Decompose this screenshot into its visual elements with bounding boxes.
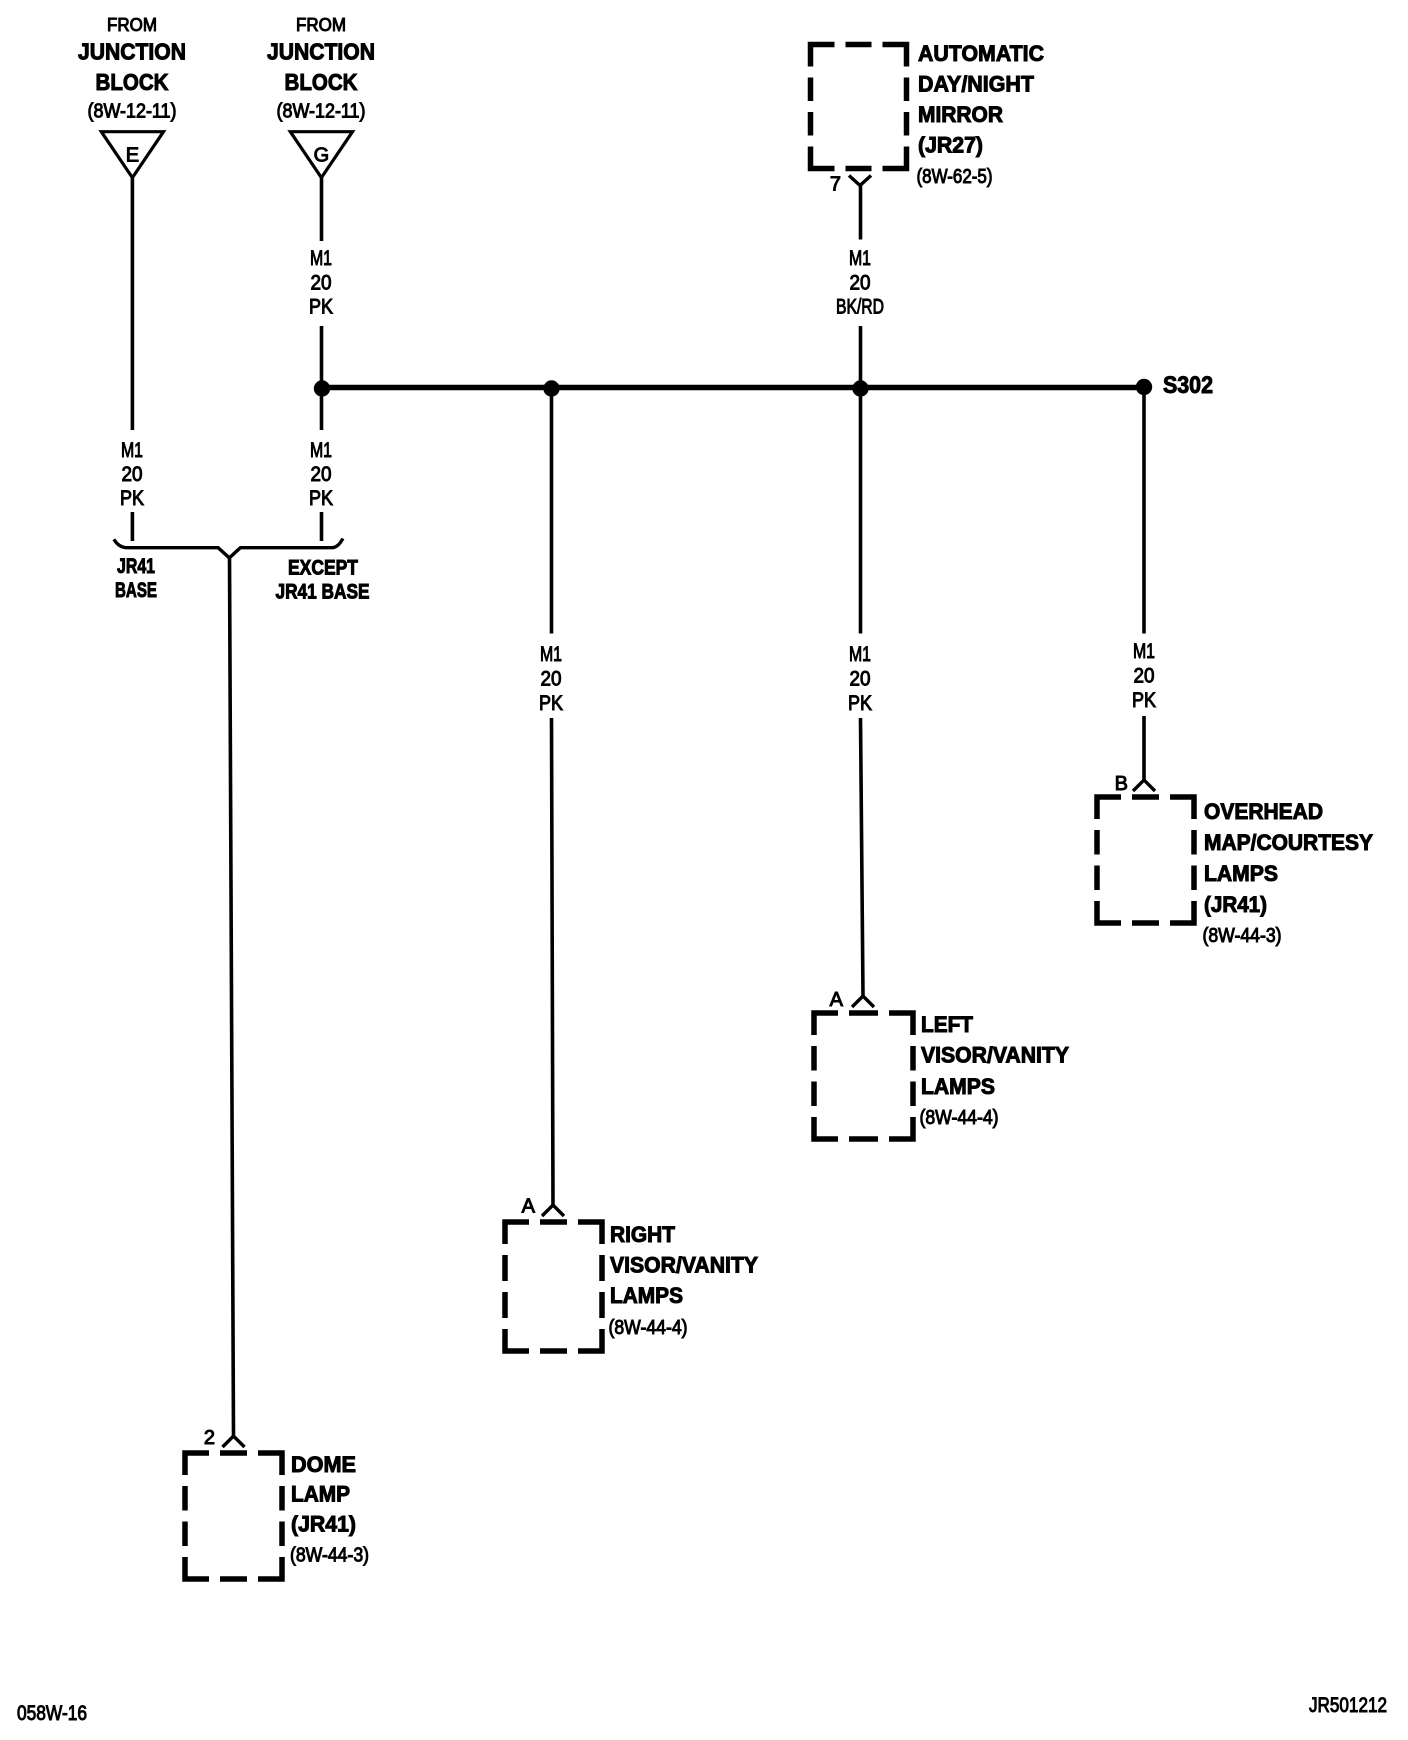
wire S302 to overhead lamps upper bbox=[1142, 395, 1146, 634]
connector triangle E from junction block bbox=[101, 132, 163, 178]
wire splice to left visor upper bbox=[859, 388, 863, 634]
svg-text:VISOR/VANITY: VISOR/VANITY bbox=[921, 1043, 1069, 1068]
svg-text:2: 2 bbox=[204, 1427, 215, 1449]
svg-text:EXCEPT: EXCEPT bbox=[288, 557, 358, 580]
svg-text:20: 20 bbox=[850, 272, 871, 295]
svg-text:(8W-12-11): (8W-12-11) bbox=[277, 101, 366, 123]
svg-text:(8W-44-3): (8W-44-3) bbox=[290, 1545, 369, 1567]
svg-text:E: E bbox=[126, 145, 139, 167]
svg-text:20: 20 bbox=[850, 668, 871, 691]
wire E feed to brace bbox=[131, 512, 135, 541]
svg-text:VISOR/VANITY: VISOR/VANITY bbox=[610, 1253, 758, 1278]
svg-text:M1: M1 bbox=[310, 247, 332, 270]
svg-text:JR41 BASE: JR41 BASE bbox=[276, 581, 370, 604]
svg-text:A: A bbox=[830, 989, 844, 1011]
svg-text:(8W-44-4): (8W-44-4) bbox=[920, 1107, 999, 1129]
svg-text:PK: PK bbox=[539, 692, 563, 715]
wire splice to right visor upper bbox=[550, 388, 554, 634]
svg-text:MIRROR: MIRROR bbox=[918, 102, 1003, 127]
svg-text:LAMPS: LAMPS bbox=[610, 1283, 683, 1308]
connector pin 7 crow's foot (mirror) bbox=[849, 176, 871, 186]
svg-text:PK: PK bbox=[120, 487, 144, 510]
svg-text:JR501212: JR501212 bbox=[1309, 1694, 1387, 1717]
svg-text:JR41: JR41 bbox=[117, 555, 155, 578]
svg-text:PK: PK bbox=[309, 296, 333, 319]
svg-text:(8W-62-5): (8W-62-5) bbox=[917, 166, 993, 188]
wire below splice (G branch) bbox=[320, 388, 324, 430]
svg-text:20: 20 bbox=[311, 272, 332, 295]
svg-text:RIGHT: RIGHT bbox=[610, 1222, 676, 1247]
svg-text:M1: M1 bbox=[540, 643, 562, 666]
wire G feed upper bbox=[320, 178, 324, 241]
wire G feed to splice bbox=[320, 326, 324, 388]
svg-text:LAMPS: LAMPS bbox=[921, 1074, 995, 1099]
svg-text:LEFT: LEFT bbox=[921, 1012, 974, 1037]
component box LEFT VISOR/VANITY LAMPS (dashed) bbox=[814, 1013, 913, 1139]
wire G feed to brace bbox=[320, 512, 324, 541]
svg-text:20: 20 bbox=[311, 463, 332, 486]
svg-text:LAMP: LAMP bbox=[291, 1482, 350, 1507]
wire to right visor lamps bbox=[552, 718, 554, 1205]
brace merge (JR41 BASE / EXCEPT JR41 BASE) bbox=[114, 539, 343, 558]
svg-text:PK: PK bbox=[848, 692, 872, 715]
svg-text:(JR41): (JR41) bbox=[291, 1512, 356, 1537]
svg-text:20: 20 bbox=[1134, 665, 1155, 688]
svg-text:M1: M1 bbox=[849, 643, 871, 666]
svg-text:G: G bbox=[314, 145, 330, 167]
svg-text:M1: M1 bbox=[1133, 640, 1155, 663]
svg-text:M1: M1 bbox=[121, 439, 143, 462]
connector triangle G from junction block bbox=[290, 132, 352, 178]
svg-text:(8W-44-4): (8W-44-4) bbox=[609, 1317, 688, 1339]
svg-text:20: 20 bbox=[541, 668, 562, 691]
component box RIGHT VISOR/VANITY LAMPS (dashed) bbox=[505, 1222, 602, 1351]
splice bus wire S302 bbox=[322, 385, 1144, 391]
svg-text:DAY/NIGHT: DAY/NIGHT bbox=[918, 72, 1035, 97]
svg-text:FROM: FROM bbox=[107, 15, 157, 35]
svg-text:DOME: DOME bbox=[291, 1452, 356, 1477]
wire to left visor lamps bbox=[861, 718, 864, 996]
wire brace to dome lamp bbox=[230, 557, 234, 1436]
component box OVERHEAD MAP/COURTESY LAMPS (dashed) bbox=[1097, 797, 1194, 923]
junction dot left visor / mirror branch bbox=[852, 380, 868, 396]
connector pin 2 crow's foot (dome lamp) bbox=[223, 1436, 245, 1447]
wire mirror to splice bbox=[859, 326, 863, 388]
svg-text:PK: PK bbox=[1132, 689, 1156, 712]
svg-text:058W-16: 058W-16 bbox=[17, 1702, 87, 1725]
wire mirror pin 7 down bbox=[859, 186, 863, 240]
svg-text:B: B bbox=[1115, 773, 1128, 795]
svg-text:BLOCK: BLOCK bbox=[96, 69, 169, 95]
wire E feed M1 20 PK bbox=[131, 178, 135, 430]
svg-text:JUNCTION: JUNCTION bbox=[78, 39, 186, 65]
svg-text:LAMPS: LAMPS bbox=[1204, 861, 1278, 886]
svg-text:(8W-12-11): (8W-12-11) bbox=[88, 101, 177, 123]
svg-text:MAP/COURTESY: MAP/COURTESY bbox=[1204, 830, 1373, 855]
svg-text:A: A bbox=[522, 1196, 536, 1218]
svg-text:OVERHEAD: OVERHEAD bbox=[1204, 799, 1323, 824]
connector pin B crow's foot (overhead lamps) bbox=[1133, 780, 1155, 791]
svg-text:FROM: FROM bbox=[296, 15, 346, 35]
svg-text:S302: S302 bbox=[1163, 372, 1213, 399]
svg-text:7: 7 bbox=[830, 174, 841, 196]
svg-text:BLOCK: BLOCK bbox=[285, 69, 358, 95]
junction dot right visor branch bbox=[543, 380, 559, 396]
svg-text:AUTOMATIC: AUTOMATIC bbox=[918, 41, 1044, 66]
svg-text:(JR41): (JR41) bbox=[1204, 892, 1267, 917]
connector pin A crow's foot (left visor) bbox=[852, 996, 874, 1007]
svg-text:20: 20 bbox=[122, 463, 143, 486]
svg-text:M1: M1 bbox=[310, 439, 332, 462]
svg-text:(JR27): (JR27) bbox=[918, 133, 983, 158]
wire to overhead lamps bbox=[1142, 716, 1146, 780]
svg-text:(8W-44-3): (8W-44-3) bbox=[1203, 925, 1282, 947]
component box AUTOMATIC DAY/NIGHT MIRROR (dashed) bbox=[811, 45, 907, 169]
junction dot at G branch on splice bus bbox=[314, 380, 330, 396]
svg-text:M1: M1 bbox=[849, 247, 871, 270]
svg-text:JUNCTION: JUNCTION bbox=[267, 39, 375, 65]
junction dot S302 bbox=[1136, 379, 1152, 395]
svg-text:PK: PK bbox=[309, 487, 333, 510]
component box DOME LAMP (dashed) bbox=[185, 1453, 282, 1579]
svg-text:BK/RD: BK/RD bbox=[836, 296, 884, 319]
connector pin A crow's foot (right visor) bbox=[542, 1205, 564, 1216]
svg-text:BASE: BASE bbox=[115, 579, 157, 602]
